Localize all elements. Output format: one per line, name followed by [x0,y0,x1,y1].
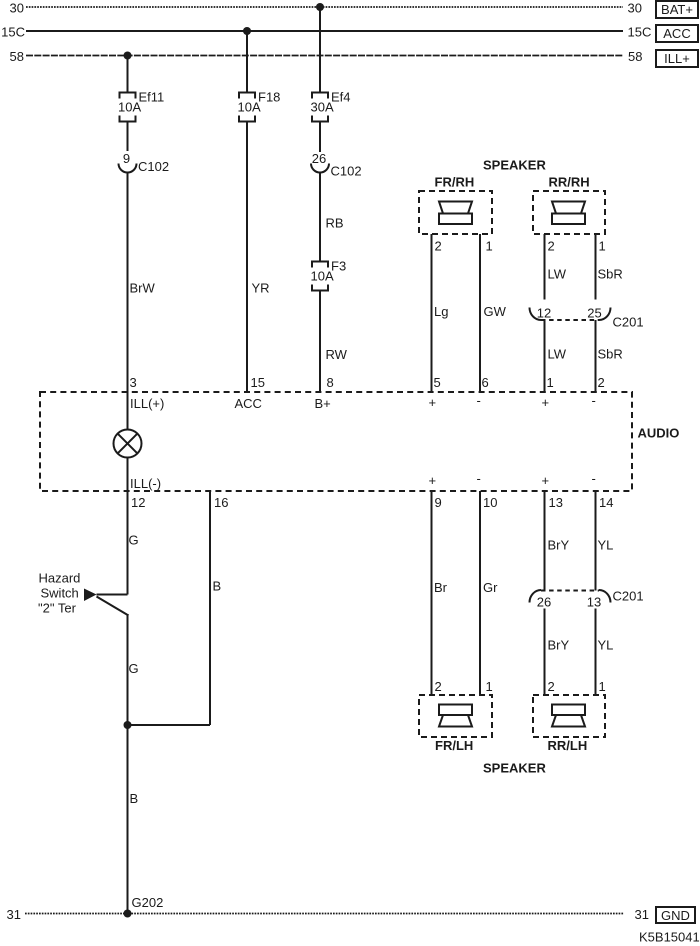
svg-text:BrY: BrY [548,638,570,653]
node junction on bus 30 at Ef4 feed [316,3,324,11]
wire C201 pin12 to AUDIO pin 1 (LW) [544,320,546,392]
svg-text:YR: YR [252,281,270,296]
fuse Ef11 10A [120,93,136,99]
wire fuse Ef4 to connector C102 pin 26 [319,122,321,153]
net box BAT+ [656,1,698,18]
svg-text:G: G [129,661,139,676]
svg-text:Ef4: Ef4 [331,90,351,105]
svg-text:25: 25 [587,306,601,321]
wire C201 pin13 to RR/LH pin1 (YL) [595,609,597,696]
svg-text:14: 14 [599,495,613,510]
svg-text:10A: 10A [238,100,261,115]
wire C102 pin26 to fuse F3 (RB) [319,173,321,262]
net box ACC [656,25,698,42]
svg-text:SbR: SbR [598,347,623,362]
svg-text:10: 10 [483,495,497,510]
svg-text:30: 30 [10,1,24,16]
svg-text:SPEAKER: SPEAKER [483,761,546,776]
svg-text:6: 6 [482,375,489,390]
svg-text:G202: G202 [132,895,164,910]
svg-text:ACC: ACC [663,26,690,41]
wire AUDIO pin13 to C201 pin26 (BrY) [544,491,546,591]
svg-text:"2" Ter: "2" Ter [38,601,77,616]
svg-text:C102: C102 [138,159,169,174]
svg-text:K5B15041: K5B15041 [639,930,700,945]
svg-text:C201: C201 [613,589,644,604]
svg-text:26: 26 [312,151,326,166]
svg-text:GND: GND [661,908,690,923]
svg-text:B: B [213,579,222,594]
svg-text:SPEAKER: SPEAKER [483,158,546,173]
svg-text:31: 31 [7,907,21,922]
svg-text:+: + [542,395,550,410]
speaker RR/RH [533,191,605,234]
svg-text:12: 12 [131,495,145,510]
svg-text:58: 58 [10,49,24,64]
wire AUDIO pin3 to lamp [127,392,129,430]
svg-text:BAT+: BAT+ [661,2,693,17]
svg-text:31: 31 [635,907,649,922]
speaker FR/RH [419,191,492,234]
svg-text:F18: F18 [258,90,280,105]
fuse F18 10A [239,93,255,99]
svg-text:30A: 30A [311,100,334,115]
svg-text:RR/LH: RR/LH [548,738,588,753]
connector C201 upper (pins 12 / 25) [530,308,542,321]
svg-text:-: - [592,393,596,408]
svg-text:Hazard: Hazard [39,571,81,586]
svg-text:+: + [542,473,550,488]
svg-text:+: + [429,473,437,488]
wire AUDIO pin16 down (B) [209,491,211,725]
wire switch to junction (G) [127,614,129,725]
wire FR/RH pin2 to AUDIO pin 5 (Lg) [431,234,433,392]
svg-text:10A: 10A [311,269,334,284]
svg-text:ACC: ACC [235,396,262,411]
net box GND [656,907,695,923]
wire fuse Ef11 to connector C102 pin 9 [127,122,129,152]
svg-text:RW: RW [326,347,348,362]
svg-text:C102: C102 [331,164,362,179]
svg-text:C201: C201 [613,315,644,330]
svg-text:8: 8 [327,375,334,390]
svg-text:-: - [477,393,481,408]
svg-text:ILL+: ILL+ [664,51,690,66]
svg-text:GW: GW [484,304,507,319]
node junction at G wire merge [124,721,132,729]
node junction on bus 58 at Ef11 feed [124,52,132,60]
connector C102 pin 9 [119,164,137,173]
svg-text:RB: RB [326,216,344,231]
svg-text:1: 1 [486,239,493,254]
svg-text:SbR: SbR [598,267,623,282]
svg-text:G: G [129,533,139,548]
wire AUDIO pin12 down to hazard switch (G) [127,491,129,595]
svg-text:2: 2 [435,239,442,254]
svg-text:B+: B+ [315,396,331,411]
wire C201 pin26 to RR/LH pin2 (BrY) [544,609,546,696]
wire bus 31 (GND) [25,913,624,915]
svg-text:Gr: Gr [483,580,498,595]
svg-text:+: + [429,395,437,410]
speaker RR/LH [533,695,605,737]
svg-text:9: 9 [435,495,442,510]
svg-text:9: 9 [123,151,130,166]
wire RR/RH pin2 to C201 pin12 (LW) [544,234,546,300]
wire junction horizontal pin16 branch to main [128,724,211,726]
hazard switch blade (diagonal) [97,597,129,616]
node junction on bus 31 at G202 [124,910,132,918]
wire bus58 to fuse Ef11 [127,56,129,93]
wire lamp to AUDIO pin12 [127,458,129,492]
svg-text:RR/RH: RR/RH [549,175,590,190]
svg-text:10A: 10A [118,100,141,115]
svg-text:1: 1 [547,375,554,390]
wire RR/RH pin1 to C201 pin25 (SbR) [595,234,597,300]
svg-text:Br: Br [434,580,448,595]
wire bus15C to fuse F18 [246,31,248,93]
svg-text:Ef11: Ef11 [139,90,165,105]
svg-text:BrW: BrW [130,281,156,296]
svg-text:2: 2 [598,375,605,390]
wire bus 30 (BAT+) [26,6,623,8]
lamp illumination (circle with X) [114,430,142,458]
net box ILL+ [656,50,698,67]
svg-text:1: 1 [599,239,606,254]
wire C201 pin25 to AUDIO pin 2 (SbR) [595,320,597,392]
svg-text:Switch: Switch [41,586,79,601]
svg-text:YL: YL [598,538,614,553]
wire junction to ground bus (B) [127,725,129,914]
svg-text:LW: LW [548,347,567,362]
hazard switch arrow [84,589,97,602]
svg-text:2: 2 [548,679,555,694]
svg-text:3: 3 [130,375,137,390]
fuse F3 10A [312,262,328,268]
svg-text:YL: YL [598,638,614,653]
svg-text:B: B [130,791,139,806]
svg-text:15C: 15C [1,25,25,40]
connector C201 lower (pins 26 / 13) [530,590,542,603]
svg-text:Lg: Lg [434,304,448,319]
svg-text:BrY: BrY [548,538,570,553]
svg-text:15: 15 [251,375,265,390]
speaker FR/LH [419,695,492,737]
wire bus30 to fuse Ef4 [319,7,321,93]
svg-text:FR/LH: FR/LH [435,738,473,753]
svg-text:13: 13 [587,595,601,610]
wire fuse F18 down to AUDIO pin 15 (YR) [246,122,248,393]
svg-text:-: - [477,471,481,486]
svg-text:30: 30 [628,1,642,16]
svg-text:16: 16 [214,495,228,510]
svg-text:AUDIO: AUDIO [638,426,680,441]
svg-text:13: 13 [549,495,563,510]
hazard switch contact bar [97,594,128,596]
unit AUDIO dashed box [40,392,632,491]
svg-text:2: 2 [548,239,555,254]
wire bus 15C (ACC) [26,30,623,32]
svg-text:ILL(-): ILL(-) [130,476,161,491]
svg-text:1: 1 [599,679,606,694]
svg-text:2: 2 [435,679,442,694]
wire AUDIO pin9 to FR/LH pin2 (Br) [431,491,433,695]
svg-text:58: 58 [628,49,642,64]
svg-text:FR/RH: FR/RH [435,175,475,190]
svg-text:12: 12 [537,306,551,321]
wire AUDIO pin14 to C201 pin13 (YL) [595,491,597,591]
wire bus 58 (ILL+) [26,55,623,57]
svg-text:5: 5 [434,375,441,390]
svg-text:LW: LW [548,267,567,282]
connector C102 pin 26 [311,164,329,173]
svg-text:ILL(+): ILL(+) [130,396,164,411]
wire C102 pin9 to AUDIO pin 3 (BrW) [127,173,129,393]
wire AUDIO pin10 to FR/LH pin1 (Gr) [479,491,481,695]
fuse Ef4 30A [312,93,328,99]
svg-text:15C: 15C [628,25,652,40]
node junction on bus 15C at F18 feed [243,27,251,35]
wire FR/RH pin1 to AUDIO pin 6 (GW) [479,234,481,392]
svg-text:26: 26 [537,595,551,610]
wire fuse F3 to AUDIO pin 8 (RW) [319,291,321,393]
svg-text:-: - [592,471,596,486]
svg-text:1: 1 [486,679,493,694]
